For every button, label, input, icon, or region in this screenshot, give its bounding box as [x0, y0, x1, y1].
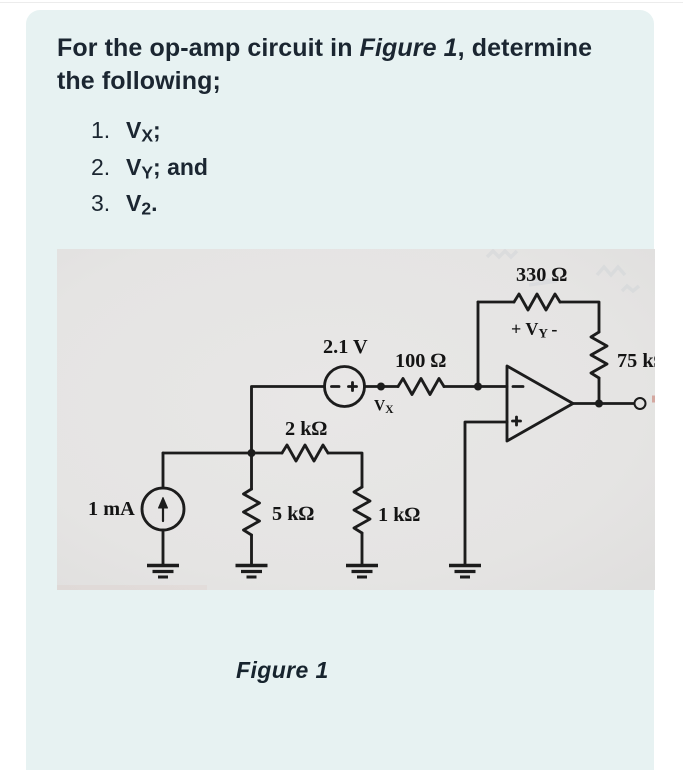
resistor R 2k [282, 445, 328, 461]
faint red mark near output [652, 396, 655, 403]
op-amp plus sign [513, 420, 521, 423]
node dot: inverting input junction [474, 383, 482, 391]
wire: 100 ohm to op-amp [444, 385, 507, 388]
svg-text:75 kΩ: 75 kΩ [617, 350, 655, 372]
wire: feedback right corner down to 75k [560, 302, 599, 332]
svg-text:330 Ω: 330 Ω [516, 264, 567, 286]
current source I1 circle [142, 488, 184, 530]
wire: node to 5k [250, 453, 253, 489]
wire: source to Vx node [365, 385, 399, 388]
figure caption [236, 657, 329, 684]
wire: current source to ground [162, 530, 165, 564]
resistor R 100 [398, 379, 444, 395]
minus sign inside source [332, 385, 340, 388]
wire: op-amp output [573, 402, 634, 405]
svg-text:2 kΩ: 2 kΩ [285, 418, 327, 440]
svg-text:5 kΩ: 5 kΩ [272, 503, 314, 525]
wire: 2k to 1k corner [328, 453, 362, 487]
ground 3 (1k) [346, 566, 378, 578]
output terminal circle [635, 398, 646, 409]
svg-text:+ VY -: + VY - [511, 319, 557, 341]
scanned circuit figure [57, 249, 655, 590]
resistor R 75k [591, 332, 607, 378]
svg-text:100 Ω: 100 Ω [395, 350, 446, 372]
node dot: output junction [595, 400, 603, 408]
plus sign inside source [349, 385, 357, 388]
voltage source V 2.1V circle [325, 367, 365, 407]
current source arrow [159, 498, 168, 522]
wire: 1k to ground [361, 533, 364, 564]
wire: node up to source row [252, 387, 325, 454]
svg-text:1 mA: 1 mA [88, 498, 135, 520]
ground 2 (5k) [236, 566, 268, 578]
faint bleed-through smudges [487, 251, 639, 291]
resistor R 330 [514, 294, 560, 310]
wire: 75k to output node [598, 378, 601, 403]
node dot: bottom junction [248, 449, 256, 457]
wire: inverting node up to feedback [477, 302, 480, 387]
wire: current source stem [162, 453, 165, 488]
wire: non-inverting input [465, 422, 507, 564]
op-amp minus sign [513, 385, 523, 388]
wire: bottom node row [163, 452, 282, 455]
top hairline [0, 2, 683, 3]
op-amp U1 triangle [507, 366, 573, 441]
resistor R 5k [244, 489, 260, 535]
ground 4 (op-amp +) [449, 566, 481, 578]
wire: 5k to ground [250, 535, 253, 564]
svg-text:2.1 V: 2.1 V [323, 336, 368, 358]
wire: feedback left segment [478, 301, 514, 304]
svg-text:1 kΩ: 1 kΩ [378, 504, 420, 526]
numbered list [91, 112, 208, 222]
question heading [57, 32, 642, 98]
node Vx dot [377, 383, 385, 391]
resistor R 1k [354, 487, 370, 533]
ground 1 (current source) [147, 566, 179, 578]
